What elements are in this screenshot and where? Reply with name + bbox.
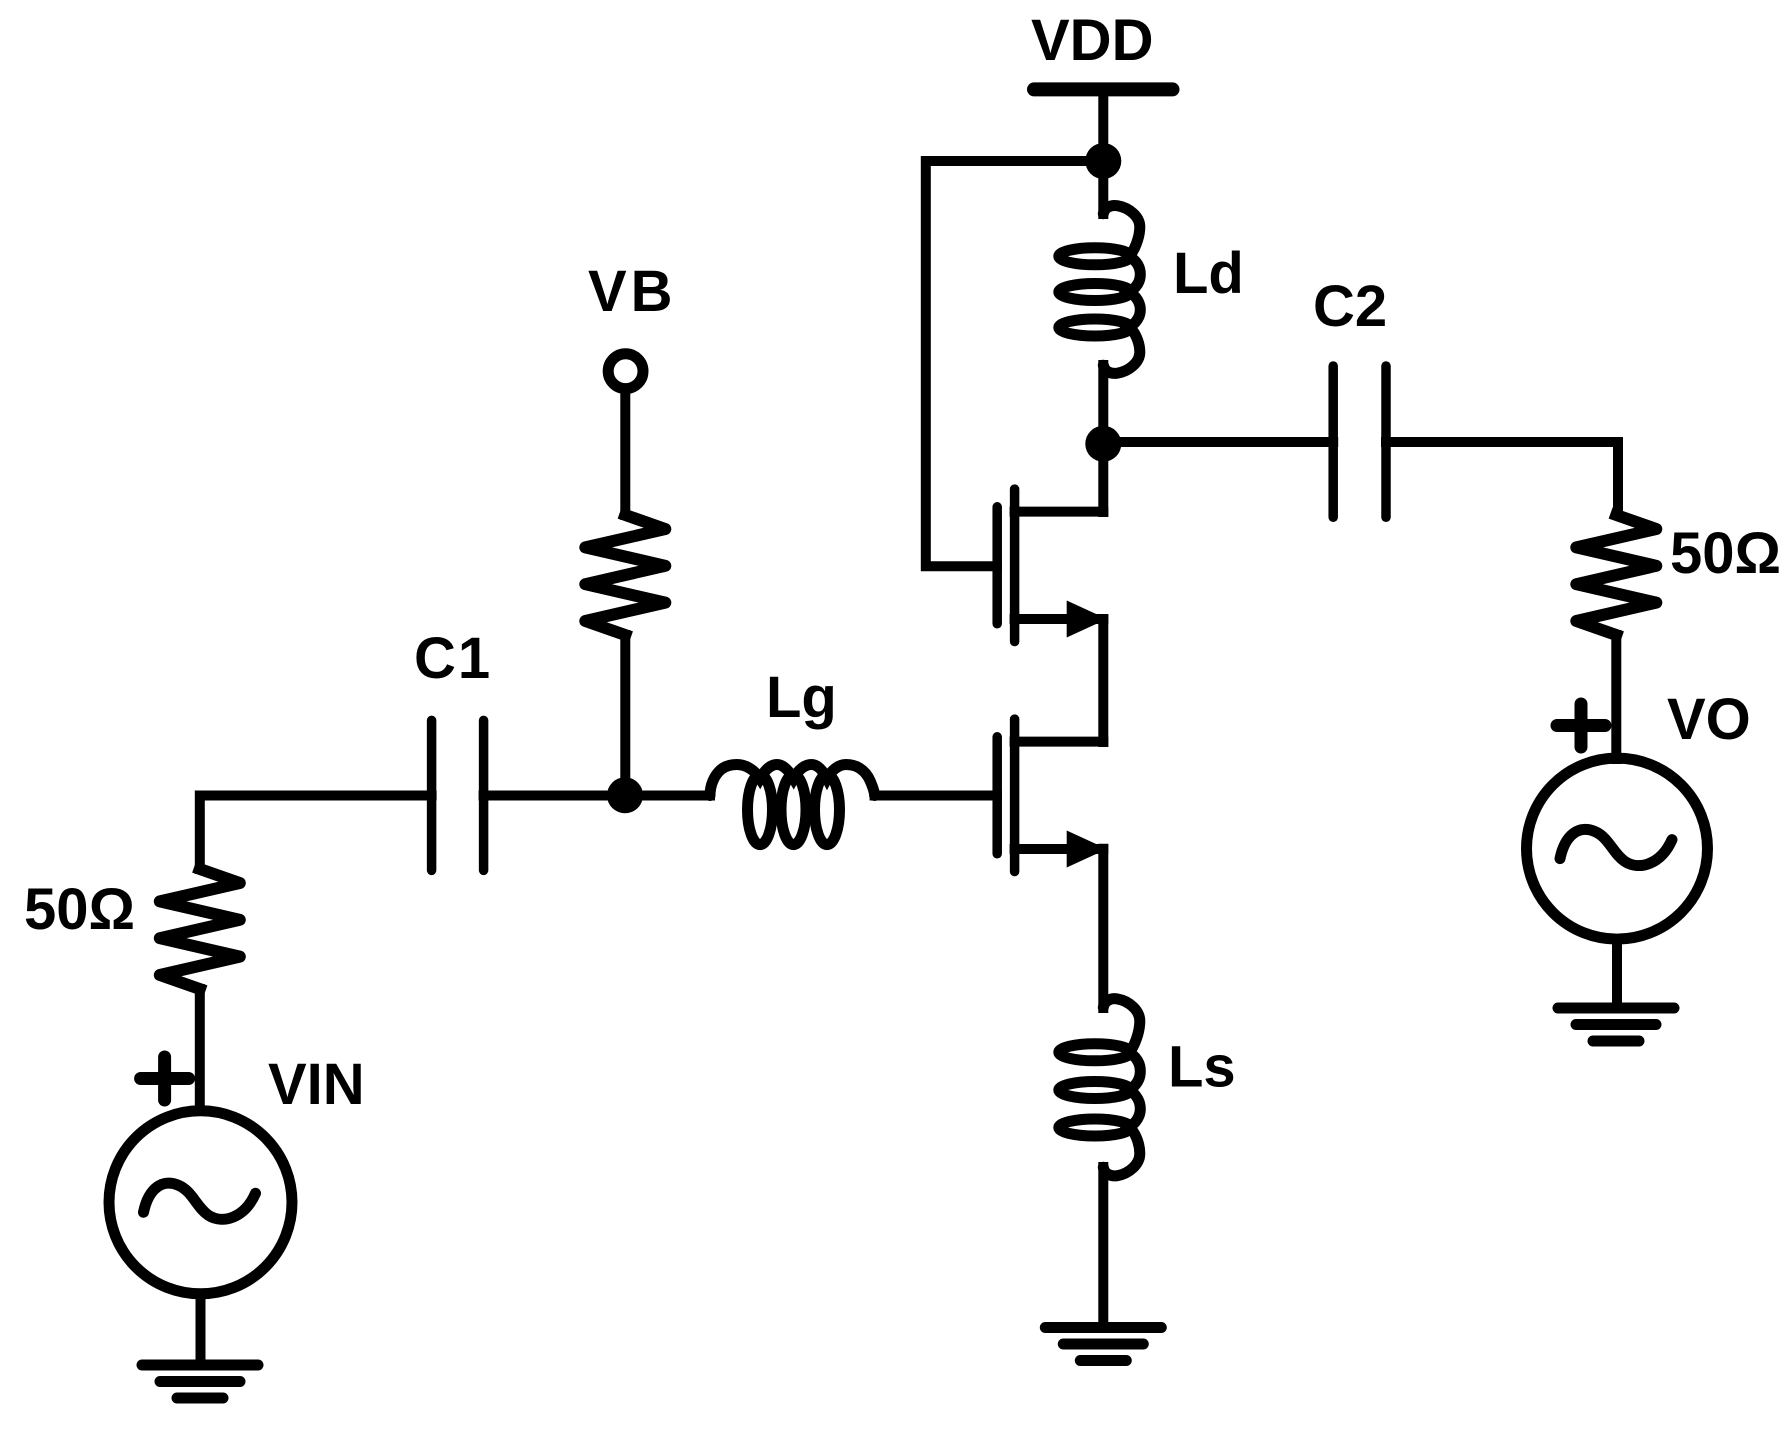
svg-text:50Ω: 50Ω (1670, 521, 1781, 586)
svg-text:C1: C1 (414, 626, 492, 691)
svg-text:C2: C2 (1313, 274, 1387, 339)
svg-text:Ls: Ls (1168, 1035, 1236, 1100)
svg-text:50Ω: 50Ω (24, 877, 135, 942)
svg-text:VB: VB (588, 259, 677, 324)
svg-text:VO: VO (1667, 687, 1751, 752)
svg-text:Lg: Lg (766, 665, 837, 730)
svg-text:VDD: VDD (1031, 8, 1153, 73)
svg-text:VIN: VIN (268, 1052, 365, 1117)
svg-text:Ld: Ld (1173, 241, 1244, 306)
